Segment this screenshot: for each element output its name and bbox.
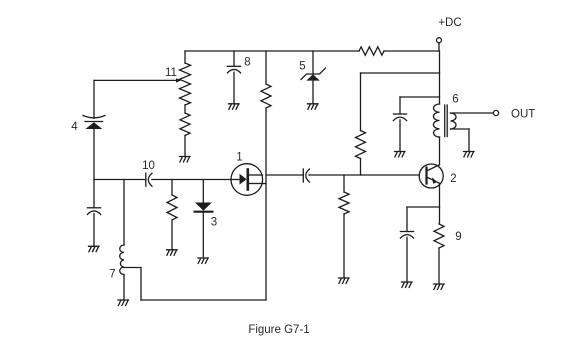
wire pot to lower resistor: [184, 105, 186, 113]
wire tank to coil: [123, 180, 125, 246]
wire tank line right: [152, 179, 231, 181]
label 9: [455, 231, 461, 243]
wire varactor to main line: [93, 129, 95, 180]
wire diode3 to ground: [202, 212, 204, 258]
ground base divider: [339, 278, 350, 283]
wire bias resistor down: [265, 108, 267, 300]
wire cathode stub: [263, 183, 267, 185]
wire bypass cap to ground: [399, 120, 401, 152]
wire cap8 stub: [233, 51, 235, 66]
wire coil tap: [124, 268, 141, 301]
svg-text:+DC: +DC: [438, 17, 461, 29]
ground L7: [118, 300, 129, 305]
resistor bias (tunnel diode): [261, 84, 271, 108]
wire left cap stub: [93, 180, 95, 208]
wire rail to pot: [184, 51, 186, 63]
node OUT terminal: [493, 110, 498, 115]
ground R9: [434, 284, 445, 289]
svg-text:1: 1: [236, 152, 242, 164]
wire left cap to ground: [93, 214, 95, 247]
svg-text:6: 6: [452, 94, 458, 106]
zener diode D5: [301, 68, 326, 81]
wire lower divider stub: [343, 175, 345, 192]
capacitor C10: [146, 173, 152, 186]
capacitor coupling to base: [303, 169, 309, 182]
varactor diode D4: [83, 116, 105, 130]
wire emitter cap to ground: [406, 237, 408, 282]
capacitor emitter bypass: [400, 232, 413, 239]
resistor below potentiometer: [180, 113, 190, 136]
ground D3: [198, 258, 209, 263]
transformer T6 core: [445, 105, 448, 137]
wire mid resistor stub: [171, 180, 173, 196]
label 7: [109, 269, 115, 281]
ground D5: [308, 104, 319, 109]
wiper arrow: [94, 78, 181, 82]
transformer T6 primary winding: [433, 104, 439, 137]
label 4: [71, 121, 78, 133]
wire mid resistor to ground: [171, 220, 173, 250]
transformer T6 secondary winding: [451, 113, 457, 129]
wire bottom return: [141, 299, 266, 301]
wire emitter: [439, 183, 441, 224]
wire secondary to OUT: [451, 112, 494, 114]
wire emitter node to bypass: [407, 207, 440, 232]
inductor L7: [120, 245, 124, 275]
capacitor bypass: [393, 114, 406, 121]
ground bypass cap: [395, 152, 406, 157]
resistor tank damping: [167, 195, 177, 220]
label 3: [211, 217, 217, 229]
wire rail to bias resistor: [265, 51, 267, 84]
wire secondary bottom: [451, 129, 470, 152]
wire coil to ground: [123, 275, 125, 301]
label Figure G7-1: [248, 324, 309, 336]
wire zener to ground: [312, 81, 314, 104]
svg-text:Figure G7-1: Figure G7-1: [248, 324, 309, 336]
ground emitter capacitor: [402, 282, 413, 287]
wire top supply rail: [185, 50, 439, 52]
svg-text:10: 10: [142, 160, 155, 172]
label 8: [244, 57, 250, 69]
node +DC terminal: [437, 38, 442, 51]
wire base line: [309, 174, 419, 176]
svg-text:3: 3: [211, 217, 217, 229]
label 11: [165, 67, 177, 79]
ground left capacitor: [89, 246, 100, 251]
label 1: [236, 152, 242, 164]
label 5: [299, 61, 305, 73]
ground secondary: [464, 152, 475, 157]
svg-text:OUT: OUT: [511, 108, 535, 120]
svg-text:2: 2: [450, 173, 456, 185]
ground mid resistor: [167, 250, 178, 255]
potentiometer R11: [180, 63, 191, 105]
wire tank line left: [94, 179, 146, 181]
svg-text:5: 5: [299, 61, 305, 73]
wire diode out to coupling cap: [266, 174, 303, 176]
wire wiper corner down: [93, 80, 95, 118]
capacitor C8: [227, 66, 240, 73]
wire collector: [439, 137, 441, 165]
wire base-divider to base line: [360, 159, 362, 176]
wire diode3 stub: [202, 180, 204, 203]
wire base-divider feed: [361, 73, 440, 131]
label 2: [450, 173, 456, 185]
wire +DC vertical feed: [439, 51, 441, 104]
wire zener stub: [312, 51, 314, 74]
ground pot chain: [180, 157, 191, 162]
label 6: [452, 94, 458, 106]
wire lower divider to ground: [343, 214, 345, 278]
wire bypass cap top: [400, 97, 440, 114]
wire pot chain to ground: [184, 136, 186, 157]
tunnel diode D1: [231, 164, 263, 196]
ground C8: [229, 104, 240, 109]
transistor Q2: [419, 164, 443, 188]
svg-text:7: 7: [109, 269, 115, 281]
resistor R9: [434, 224, 444, 248]
label +DC: [438, 17, 461, 29]
wire cap8 to ground: [233, 72, 235, 104]
label OUT: [511, 108, 535, 120]
capacitor tank (left): [87, 208, 100, 215]
svg-text:9: 9: [455, 231, 461, 243]
svg-text:8: 8: [244, 57, 250, 69]
svg-text:4: 4: [71, 121, 78, 133]
resistor base divider lower: [339, 192, 349, 214]
wire R9 to ground: [438, 248, 440, 284]
resistor series in supply rail: [359, 47, 384, 55]
label 10: [142, 160, 155, 172]
resistor base divider upper: [356, 131, 366, 159]
diode D3: [195, 203, 213, 212]
svg-text:11: 11: [165, 67, 177, 79]
